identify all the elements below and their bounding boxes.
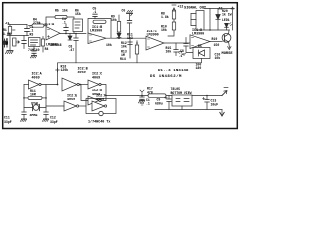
box label xyxy=(28,48,40,52)
svg-text:10k: 10k xyxy=(106,43,112,47)
junction tick xyxy=(140,90,144,96)
svg-text:4069: 4069 xyxy=(67,98,75,102)
resistor R20 label xyxy=(222,9,232,17)
svg-text:4069: 4069 xyxy=(96,98,104,102)
divider labels xyxy=(120,41,127,61)
wire xyxy=(7,35,29,37)
capacitor C9 label xyxy=(180,49,186,57)
capacitor C14 label xyxy=(146,98,150,106)
emitter arrow down xyxy=(228,47,231,50)
svg-text:1.8k: 1.8k xyxy=(161,15,169,19)
resistor R5 label xyxy=(55,9,68,13)
op-amp IC1:D label xyxy=(192,29,204,37)
ground xyxy=(5,51,13,54)
diode D5 box value label xyxy=(196,63,202,71)
capacitor C14 xyxy=(140,96,144,101)
capacitor C2 label xyxy=(30,25,34,37)
resistor R14 vertical xyxy=(135,41,138,63)
diode D5 box xyxy=(193,48,210,59)
svg-text:15k: 15k xyxy=(62,9,68,13)
wire xyxy=(9,36,11,51)
svg-text:R4: R4 xyxy=(45,47,49,51)
resistor R10 label xyxy=(111,15,117,23)
inverter IC2:B big xyxy=(62,78,79,91)
svg-text:33pF: 33pF xyxy=(50,120,58,124)
resistor R8 xyxy=(172,11,175,19)
svg-text:D1..4 1N4148: D1..4 1N4148 xyxy=(158,69,189,73)
capacitor C12 label xyxy=(50,116,58,125)
inverter IC2:D xyxy=(88,96,101,105)
rotated label MIC xyxy=(5,38,9,45)
resistor R5 xyxy=(55,15,67,18)
svg-text:1/74HC40 Tx: 1/74HC40 Tx xyxy=(88,120,110,125)
note D1..4 1N4148 xyxy=(158,69,189,73)
inverter IC2:A xyxy=(29,80,42,89)
capacitor C3 xyxy=(32,47,36,56)
wire collector rail xyxy=(204,29,230,31)
wire split down xyxy=(81,85,88,101)
svg-text:C6: C6 xyxy=(122,9,126,13)
wire op-amp D output xyxy=(210,41,222,43)
svg-text:LED1: LED1 xyxy=(222,18,230,22)
note D5 1N4862 xyxy=(150,74,182,79)
capacitor C2 xyxy=(25,25,30,36)
op-amp IC1:A label xyxy=(44,23,55,27)
diode D5 label xyxy=(198,44,202,48)
connector J2 label xyxy=(218,8,222,12)
wire top rail xyxy=(204,9,233,31)
svg-text:R14: R14 xyxy=(120,57,126,61)
wire op-amp A output xyxy=(60,33,86,35)
bypass cap label xyxy=(122,9,126,13)
resistor R17 xyxy=(148,94,166,97)
output circle Tx xyxy=(99,111,103,115)
resistor R18 label xyxy=(61,65,69,73)
wire feedback long xyxy=(58,59,202,85)
divider column resistor R10 xyxy=(117,15,120,38)
junction plus tick xyxy=(56,68,60,72)
resistor R15 label xyxy=(166,46,172,54)
svg-text:.1: .1 xyxy=(93,10,97,14)
capacitor C4 label xyxy=(62,17,66,25)
svg-text:C11: C11 xyxy=(4,116,10,120)
crystal XTAL label xyxy=(31,102,39,106)
resistor R4 xyxy=(29,24,48,27)
capacitor C8 xyxy=(74,34,78,63)
label C4 top xyxy=(75,9,81,17)
resistor R9b label xyxy=(161,25,167,33)
diode D3 xyxy=(216,9,220,31)
wire xyxy=(8,24,27,26)
svg-text:120k: 120k xyxy=(61,68,69,72)
terminal +5V arrow xyxy=(222,88,228,96)
inverter IC2:B label xyxy=(78,68,88,76)
LED1 xyxy=(225,23,232,30)
feedback loop stage A xyxy=(46,17,74,34)
wire op-amp B output xyxy=(106,37,146,39)
ground arrow bottom right xyxy=(220,110,224,117)
resistor R7 xyxy=(93,20,106,23)
capacitor C9 xyxy=(184,38,193,53)
wire E input xyxy=(46,105,64,107)
resistor label xyxy=(45,47,49,51)
svg-text:R19: R19 xyxy=(212,37,218,41)
jack box xyxy=(191,11,204,31)
svg-text:180: 180 xyxy=(196,66,202,70)
svg-text:10k: 10k xyxy=(111,18,117,22)
regulator label xyxy=(171,87,192,95)
resistor R17 label xyxy=(147,87,153,95)
wire R17 to box xyxy=(138,95,172,97)
crystal value label xyxy=(30,114,38,118)
svg-text:10k: 10k xyxy=(121,45,127,49)
capacitor C6a xyxy=(128,42,132,45)
capacitor C5 label xyxy=(93,7,97,15)
capacitor C15 label xyxy=(155,98,163,106)
svg-text:270k: 270k xyxy=(33,21,41,25)
capacitor C13 xyxy=(203,96,210,110)
resistor R8 label xyxy=(161,12,169,20)
ground under C3 xyxy=(30,56,36,58)
connector J1 jack xyxy=(4,39,8,47)
wire op-amp C output xyxy=(164,42,190,44)
svg-text:4069: 4069 xyxy=(32,77,40,81)
capacitor C11 label xyxy=(4,116,12,125)
ground under C14 xyxy=(138,101,144,106)
capacitor C7 label xyxy=(179,51,183,59)
svg-text:10M: 10M xyxy=(30,93,36,97)
svg-text:1k 1W: 1k 1W xyxy=(222,13,232,17)
svg-text:R3: R3 xyxy=(30,33,34,37)
inverter IC2:E label xyxy=(67,95,77,103)
svg-text:33pF: 33pF xyxy=(4,120,12,124)
op-amp IC1:B label xyxy=(90,30,102,34)
capacitor C15 electrolytic xyxy=(165,96,171,110)
svg-text:C12: C12 xyxy=(50,116,56,120)
resistor label 10k xyxy=(106,43,112,47)
svg-text:150: 150 xyxy=(214,43,220,47)
svg-text:LM3900: LM3900 xyxy=(46,44,58,48)
resistor R19 label xyxy=(212,37,220,47)
svg-text:1.0k: 1.0k xyxy=(5,38,9,45)
wire xyxy=(9,25,11,36)
capacitor C7 xyxy=(174,43,178,56)
transistor Q1 xyxy=(222,30,231,47)
resistor R16 label xyxy=(30,89,36,97)
capacitor C12 xyxy=(44,112,48,119)
svg-text:BOTTOM VIEW: BOTTOM VIEW xyxy=(171,91,192,95)
inverter IC2:F xyxy=(92,101,107,111)
label 74HC Tx xyxy=(88,120,110,125)
junction dots xyxy=(23,29,211,99)
op-amp IC1:D xyxy=(190,35,210,49)
crystal X1 xyxy=(24,104,46,110)
diode label 1N4148 xyxy=(50,43,62,47)
wire osc output xyxy=(41,84,57,86)
svg-text:10uF: 10uF xyxy=(211,103,219,107)
capacitor C1 xyxy=(22,36,26,49)
signal out label xyxy=(184,7,207,11)
bypass cap C6 ground xyxy=(127,10,133,38)
capacitor C8 label xyxy=(69,45,75,53)
svg-text:MORSE: MORSE xyxy=(222,52,234,56)
resistor R9b xyxy=(172,22,175,30)
potentiometer R2 xyxy=(13,38,20,46)
regulator box xyxy=(172,95,192,106)
wire bottom rail xyxy=(155,109,222,111)
op-amp IC1:C xyxy=(146,36,164,50)
svg-text:LM3900: LM3900 xyxy=(90,30,102,34)
svg-text:10k: 10k xyxy=(161,28,167,32)
LED1 label xyxy=(222,18,230,22)
wire join outputs xyxy=(101,85,106,101)
IC box 74HC4053 xyxy=(29,38,41,47)
svg-text:.47: .47 xyxy=(180,53,186,57)
inverter IC2:D label xyxy=(92,89,102,97)
resistor R14 label xyxy=(127,32,133,40)
label MORSE xyxy=(222,52,234,56)
svg-text:D5 1N4862/M: D5 1N4862/M xyxy=(150,74,182,79)
svg-text:.47: .47 xyxy=(69,48,75,52)
diode D1 xyxy=(68,34,72,41)
wire B output xyxy=(79,84,88,86)
loop box around IC2:F xyxy=(79,99,116,114)
svg-text:10k: 10k xyxy=(166,50,172,54)
wire osc loop right xyxy=(45,85,47,113)
resistor R7 label xyxy=(92,26,102,30)
+12 label xyxy=(178,5,184,9)
svg-text:470: 470 xyxy=(147,90,153,94)
wire regulator bottom pin xyxy=(181,106,183,110)
resistor R16 10M xyxy=(24,96,46,99)
capacitor C13 label xyxy=(211,99,219,107)
svg-text:SIGNAL OUT: SIGNAL OUT xyxy=(184,7,207,11)
interstage box xyxy=(73,19,83,32)
terminal J2 stub xyxy=(231,7,234,30)
capacitor C5 xyxy=(93,14,97,18)
feedback loop stage B xyxy=(88,19,111,39)
svg-text:10k: 10k xyxy=(215,56,221,60)
inverter IC2:C xyxy=(88,80,101,89)
svg-text:4MHZ: 4MHZ xyxy=(30,114,38,118)
ground under C11 xyxy=(20,119,26,121)
svg-text:R5: R5 xyxy=(55,9,59,13)
inverter IC2:C label xyxy=(92,73,102,81)
svg-text:J1: J1 xyxy=(5,22,10,26)
wire regulator out xyxy=(192,95,222,97)
wire divider xyxy=(129,38,131,58)
inverter IC2:F label xyxy=(96,95,106,103)
op-amp IC1:A xyxy=(46,27,60,41)
svg-text:+12: +12 xyxy=(178,5,184,9)
resistor R2 value label xyxy=(3,28,11,36)
svg-text:.1: .1 xyxy=(62,21,66,25)
inverter IC2:A label xyxy=(32,73,43,81)
inverter IC2:E xyxy=(64,101,79,111)
capacitor C4 xyxy=(64,24,68,34)
capacitor C10 label xyxy=(215,53,221,61)
node J1 label xyxy=(5,22,10,26)
wire divider to stage C xyxy=(168,32,174,36)
op-amp IC1:C label xyxy=(147,30,159,38)
resistor R4 label xyxy=(33,18,41,26)
supply divider +12V xyxy=(172,5,176,32)
resistor R3 vertical xyxy=(41,37,44,53)
svg-text:680u: 680u xyxy=(155,102,163,106)
border frame xyxy=(3,3,238,129)
diode D2 xyxy=(117,33,121,37)
svg-text:.1: .1 xyxy=(146,102,150,106)
capacitor C11 xyxy=(22,112,26,119)
svg-text:4069: 4069 xyxy=(78,71,86,75)
svg-text:15k: 15k xyxy=(75,12,81,16)
wire osc input xyxy=(24,84,29,86)
svg-text:4069: 4069 xyxy=(92,77,100,81)
op-amp IC1:B xyxy=(88,33,106,44)
wire osc loop left xyxy=(23,85,25,113)
wire to R17 xyxy=(106,95,138,97)
ground under C12 xyxy=(42,119,48,121)
resistor R1 xyxy=(8,27,15,35)
op-amp IC1:A part label xyxy=(46,44,58,48)
